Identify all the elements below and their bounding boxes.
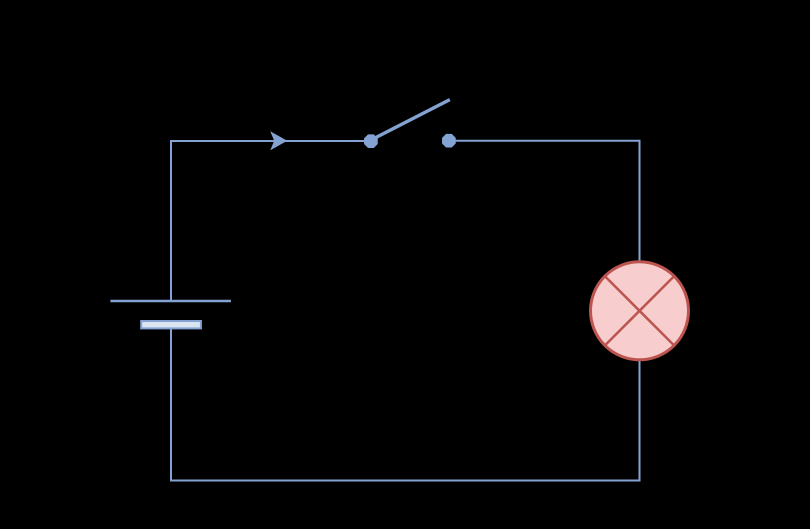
wire: left vertical lower segment (battery - down to bottom-left corner): [170, 329, 172, 482]
switch left contact dot: [364, 134, 378, 148]
wire: left vertical upper segment (battery + up to top-left corner): [170, 140, 172, 300]
battery positive plate (long thin line): [110, 300, 230, 302]
wire: top horizontal right segment (switch right dot to top-right corner): [455, 140, 641, 142]
lamp: circle with X: [591, 262, 689, 360]
wire: bottom horizontal segment: [170, 480, 641, 482]
switch right contact dot: [442, 134, 456, 148]
battery negative plate (short thick bar): [141, 321, 201, 328]
wire: top horizontal left segment (top-left corner to switch left dot): [170, 140, 366, 142]
wire: right vertical segment (top-right corner down to bottom-right corner): [639, 140, 641, 482]
switch lever: [372, 100, 450, 140]
arrow (current direction) on top wire: [270, 131, 287, 150]
